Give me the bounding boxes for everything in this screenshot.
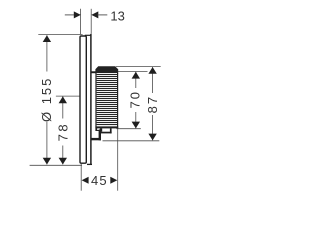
stop button block A	[95, 128, 101, 131]
dimension 78 line upper segment	[62, 96, 64, 118]
top reference line (plate top)	[38, 34, 82, 36]
center axis reference line	[56, 95, 86, 97]
dimension 13 right arrowhead	[91, 11, 98, 18]
dimension 45 right extension line	[117, 128, 119, 191]
plate bottom connector edge	[87, 163, 92, 165]
svg-text:Ø 155: Ø 155	[39, 77, 54, 122]
knob knurled body left edge	[95, 73, 97, 128]
plate front face line	[90, 34, 92, 165]
knob top cap and shoulder	[95, 66, 118, 73]
knob knurl pattern	[97, 73, 117, 127]
bottom reference line (plate bottom)	[30, 164, 82, 166]
cap top reference line (87)	[116, 66, 161, 68]
dimension 45 left arrowhead	[82, 177, 89, 184]
dimension 13 left extension line	[80, 9, 82, 35]
dimension 78 line lower segment	[62, 146, 64, 165]
lever paddle	[91, 138, 101, 140]
dimension 70 line upper segment	[135, 72, 137, 88]
knob bottom reference line (70)	[117, 128, 141, 130]
dimension 70 line lower segment	[135, 112, 137, 128]
dimension 13 right leader line	[98, 14, 108, 16]
svg-text:78: 78	[55, 122, 70, 141]
dimension 87 line lower segment	[152, 115, 154, 140]
dimension 70 bottom arrowhead	[132, 122, 140, 129]
svg-text:70: 70	[128, 90, 143, 108]
dimension 13 left leader line	[65, 14, 75, 16]
svg-text:13: 13	[110, 8, 124, 23]
lever bottom reference line (87)	[103, 140, 160, 142]
dimension 13 left arrowhead	[74, 11, 81, 18]
dimension D155 bottom arrowhead	[43, 158, 51, 165]
dimension 87 bottom arrowhead	[148, 134, 156, 141]
dimension D155 top arrowhead	[43, 35, 51, 42]
svg-text:45: 45	[91, 173, 108, 188]
dimension 45 right arrowhead	[110, 177, 117, 184]
svg-text:87: 87	[145, 95, 160, 113]
lever vertical arm	[99, 130, 101, 141]
escutcheon plate slab outline	[80, 36, 86, 163]
knob neck top edge	[91, 71, 96, 73]
dimension D155 line lower segment	[46, 122, 48, 165]
knob top reference line (70)	[117, 70, 148, 72]
knob knurled body right edge	[117, 73, 119, 128]
knob bottom edge bar	[95, 126, 118, 128]
plate top connector edge	[85, 34, 92, 36]
dimension 45 left extension line	[80, 164, 82, 191]
dimension 87 line upper segment	[152, 67, 154, 93]
dimension 78 bottom arrowhead	[59, 158, 67, 165]
dimension 13 right extension line	[90, 9, 92, 34]
dimension 78 top arrowhead	[59, 96, 67, 103]
dimension 70 top arrowhead	[132, 72, 140, 79]
stop button block B frame	[101, 132, 112, 134]
dimension 87 top arrowhead	[148, 67, 156, 74]
dimension D155 line upper segment	[46, 35, 48, 71]
